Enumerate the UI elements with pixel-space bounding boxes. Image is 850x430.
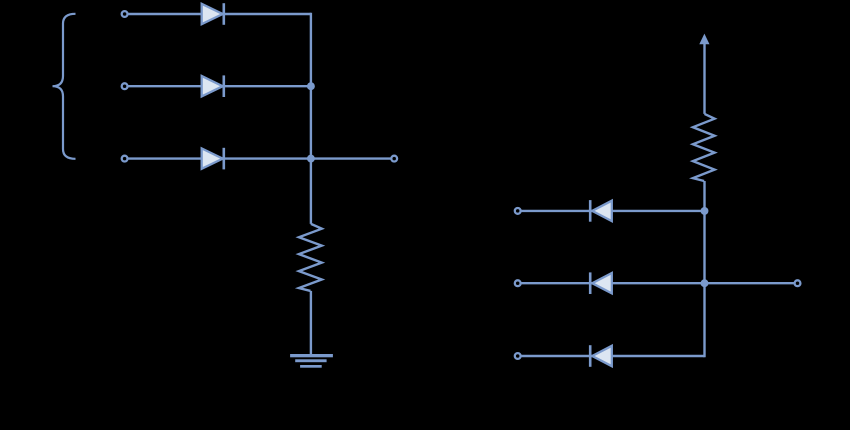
wire resistor to ground (left circuit) [310, 291, 312, 355]
bus wire (right circuit vertical) [703, 181, 705, 357]
input terminal 3 (right circuit) [515, 353, 521, 359]
input terminal 1 (left circuit) [122, 11, 128, 17]
junction dot row 2 (right circuit) [701, 279, 709, 287]
diode D4 [590, 200, 612, 222]
diode D5 [590, 272, 612, 294]
diode D1 [202, 3, 224, 25]
resistor R1 [299, 224, 322, 291]
wire row 2 (left circuit) [128, 85, 311, 87]
output terminal (left circuit) [391, 156, 397, 162]
junction dot row 3 (left circuit) [307, 155, 315, 163]
diode D6 [590, 345, 612, 367]
junction dot row 2 (left circuit) [307, 82, 315, 90]
wire row 1 (left circuit) [128, 13, 311, 15]
wire row 1 (right circuit) [521, 210, 705, 212]
brace (input group, left circuit) [53, 14, 76, 159]
junction dot row 1 (right circuit) [701, 207, 709, 215]
wire row 2 (right circuit, output) [521, 282, 795, 284]
wire row 3 (right circuit) [521, 355, 705, 357]
supply arrow (right circuit, V+) [699, 34, 709, 114]
input terminal 2 (right circuit) [515, 280, 521, 286]
ground [290, 354, 333, 368]
input terminal 3 (left circuit) [122, 156, 128, 162]
wire row 3 (left circuit) [128, 157, 392, 159]
output terminal (right circuit) [795, 280, 801, 286]
diode D2 [202, 75, 224, 97]
input terminal 1 (right circuit) [515, 208, 521, 214]
diode D3 [202, 148, 224, 170]
resistor R2 [693, 114, 715, 181]
bus wire (left circuit vertical) [310, 13, 312, 224]
input terminal 2 (left circuit) [122, 83, 128, 89]
